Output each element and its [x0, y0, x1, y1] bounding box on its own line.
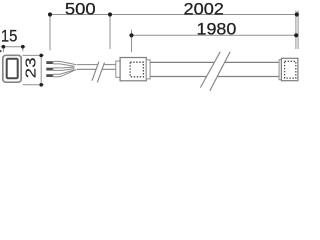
connector body: [120, 58, 146, 81]
extension line cap end (x=298.1): [297, 11, 299, 49]
end cap body: [281, 58, 298, 80]
dot 23 top: [39, 54, 43, 58]
connector collar: [146, 60, 150, 79]
dimension line bottom (1980): [132, 34, 297, 36]
connector inlet tab: [116, 61, 120, 77]
extension line strip start (x=131.5): [131, 30, 133, 52]
dot 1980 left: [129, 33, 133, 37]
dot 2002 right: [295, 12, 299, 16]
wire 1 outline: [53, 61, 77, 66]
wire 2 outline: [53, 67, 75, 70]
23 dimension line vertical: [40, 55, 42, 84]
strip break slash 2: [210, 52, 230, 91]
svg-text:500: 500: [65, 0, 96, 19]
strip break gap: [200, 52, 230, 91]
cable break slash 1: [92, 62, 99, 81]
wire tip 2: [46, 68, 53, 71]
end view inner opening: [7, 59, 18, 79]
15 stub right: [22, 47, 24, 52]
edge mark (clipped arrow fragment): [0, 50, 1, 52]
15 stub left: [2, 47, 4, 53]
dot 23 bottom: [39, 83, 43, 87]
wire tip 1: [46, 61, 53, 64]
svg-text:1980: 1980: [197, 19, 237, 38]
strip outline bottom: [150, 76, 279, 78]
end cap hidden strip (dotted): [285, 61, 296, 78]
cable outline: [77, 65, 116, 70]
extension line connector start (x=110): [109, 15, 111, 50]
23 extension tick top: [23, 54, 45, 56]
svg-text:15: 15: [1, 27, 18, 46]
svg-text:2002: 2002: [184, 0, 224, 19]
dot 1980 right: [294, 33, 298, 37]
end cap flange: [279, 60, 281, 80]
extension line strip end (x=295.9): [295, 11, 297, 49]
extension line left (x=50): [49, 15, 51, 51]
cable break slash 2: [97, 63, 104, 83]
end view outer profile: [3, 55, 21, 82]
wire tip 3: [46, 74, 53, 77]
cable break gap: [92, 61, 105, 83]
15 dimension line: [1, 46, 26, 48]
wire 3 outline: [53, 61, 77, 77]
dot 15 right: [21, 45, 25, 49]
strip outline top: [150, 61, 279, 63]
connector hidden strip (dashed): [130, 62, 143, 77]
svg-text:23: 23: [23, 57, 39, 78]
strip break slash 1: [200, 52, 220, 88]
dimension line top (500 / 2002): [50, 14, 297, 16]
dot 500/2002 junction: [108, 12, 112, 16]
dot 15 left: [2, 45, 6, 49]
23 extension tick bottom: [23, 84, 45, 86]
dot 500 left: [48, 12, 52, 16]
